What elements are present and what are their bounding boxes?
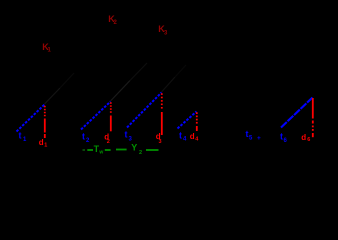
faint trajectory above apex 2 (111, 81, 131, 102)
svg-text:w: w (98, 150, 103, 156)
triangle 2 hypotenuse (81, 102, 111, 130)
label t6 (280, 131, 288, 144)
green period line dash b (87, 149, 93, 151)
label Tw (94, 144, 104, 156)
svg-text:t: t (19, 130, 22, 140)
label K3 (158, 24, 168, 36)
label d4 (190, 132, 200, 142)
svg-text:d: d (301, 133, 306, 142)
green period line dash a (faint) (83, 149, 86, 151)
triangle 1 hypotenuse (17, 105, 45, 132)
label d1 (39, 138, 47, 149)
svg-text:2: 2 (107, 139, 110, 145)
faint trajectory above apex 1 (45, 88, 61, 104)
label K1 (42, 42, 51, 54)
triangle 2 vertical leg (110, 102, 112, 131)
svg-text:d: d (190, 132, 195, 141)
label t3 (125, 130, 133, 143)
svg-text:t: t (82, 132, 85, 142)
label t1 (19, 130, 28, 143)
green period line dash e (146, 149, 159, 151)
green period line dash d (116, 149, 127, 151)
label d6 (301, 133, 310, 143)
svg-text:1: 1 (44, 142, 47, 148)
label d3 (156, 132, 162, 145)
triangle 5 vertical leg (312, 98, 314, 137)
triangle 3 hypotenuse (127, 93, 162, 128)
svg-text:t: t (125, 130, 128, 140)
label K2 (108, 14, 117, 26)
svg-text:3: 3 (159, 139, 162, 145)
label t2 (82, 132, 90, 145)
label d2 (104, 133, 110, 145)
triangle 1 vertical leg (44, 106, 46, 138)
svg-text:6: 6 (307, 137, 310, 143)
svg-text:d: d (39, 138, 44, 147)
faint trajectory above apex 3 (162, 77, 176, 92)
label t4 (179, 131, 187, 143)
triangle 5 hypotenuse (281, 98, 313, 128)
label t5 plus (series continuation) (246, 129, 262, 142)
triangle 3 vertical leg (161, 93, 163, 135)
triangle 4 hypotenuse (178, 112, 197, 129)
triangle 4 vertical leg (196, 112, 198, 131)
svg-text:+: + (257, 135, 261, 142)
svg-text:t: t (179, 131, 182, 141)
green period line dash c (105, 149, 111, 151)
svg-text:2: 2 (139, 150, 142, 156)
svg-text:Y: Y (131, 143, 137, 153)
label Y2 (131, 143, 142, 156)
